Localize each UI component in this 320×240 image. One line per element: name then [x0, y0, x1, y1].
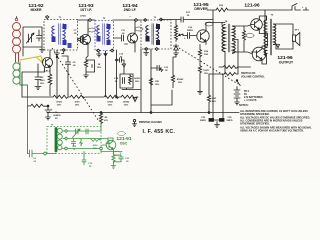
ground end of y97	[133, 98, 137, 102]
osc resistor 4700	[90, 139, 100, 142]
notes block	[239, 104, 312, 132]
ground tuning	[40, 47, 45, 52]
osc coil windings green	[47, 123, 132, 169]
osc arrow	[80, 139, 83, 146]
driver collector wire to T4	[206, 22, 222, 24]
osc transistor Q7 121-91	[106, 140, 116, 150]
svg-text:10%: 10%	[124, 105, 128, 107]
resistor 4700 x173	[171, 56, 176, 88]
green feed from bus	[100, 123, 102, 127]
coupling cap C11	[114, 35, 128, 44]
svg-text:I. F. 455 KC.: I. F. 455 KC.	[143, 129, 176, 135]
T1 windings blue	[52, 24, 72, 49]
green node diamonds	[65, 130, 68, 140]
osc coil core thick green	[55, 129, 58, 152]
svg-text:10%: 10%	[204, 73, 208, 75]
svg-text:470Ω: 470Ω	[56, 101, 62, 104]
svg-text:10%: 10%	[75, 105, 79, 107]
T2 diamonds and ground	[97, 49, 114, 52]
resistor x209 to bus	[207, 74, 210, 114]
svg-text:+ 4 VOLTS: + 4 VOLTS	[244, 99, 257, 102]
osc cap C20	[114, 155, 124, 162]
speaker SP1	[293, 33, 300, 46]
driver transistor Q4 121-95	[197, 30, 209, 42]
svg-text:100Ω: 100Ω	[203, 70, 209, 72]
svg-text:NOTES:: NOTES:	[239, 104, 249, 107]
AGC node diamond + cap C7	[78, 37, 87, 43]
T3 windings	[146, 24, 161, 46]
label 121-93 1ST I.F.	[78, 3, 94, 12]
svg-text:1ST I.F.: 1ST I.F.	[80, 8, 92, 12]
mixer emitter resistor R2	[48, 74, 52, 96]
label 121-96 OUTPUT	[277, 55, 294, 65]
label 121-92 MIXER	[28, 3, 44, 12]
osc cap C?	[86, 129, 88, 134]
osc row y131	[63, 127, 101, 132]
wire yellow antenna tap to mixer base	[20, 56, 43, 63]
output transistor Q5 top 121-96	[251, 19, 263, 31]
bottom bus y97 with series resistors	[22, 95, 138, 98]
label 121-95 DRIVER	[193, 2, 209, 11]
osc cap C18	[71, 139, 75, 147]
svg-text:SP 1: SP 1	[295, 30, 300, 32]
svg-text:MIXER: MIXER	[30, 8, 42, 12]
osc emitter resistor	[111, 152, 115, 169]
1st IF transistor Q2 121-93	[81, 35, 91, 45]
wire x116 with capacitor C12 branch	[116, 50, 118, 97]
svg-text:121-96: 121-96	[244, 3, 260, 9]
svg-text:2ND I.F.: 2ND I.F.	[124, 8, 137, 12]
IF transformer T3 dashed box	[141, 20, 171, 49]
osc trimmer cap C17	[73, 129, 81, 138]
svg-text:10%: 10%	[97, 67, 101, 69]
oscillator section green box T6	[47, 127, 101, 154]
svg-text:1K: 1K	[187, 15, 190, 17]
svg-text:10%: 10%	[108, 105, 112, 107]
volume control pot	[175, 25, 178, 41]
T3 diamonds and ground	[144, 18, 163, 50]
cap C8 on x68	[62, 56, 71, 97]
svg-text:50MFD: 50MFD	[53, 115, 61, 117]
svg-text:10%: 10%	[40, 83, 44, 85]
svg-text:10%: 10%	[212, 101, 216, 103]
T4 secondary wires	[233, 25, 252, 75]
svg-text:33Ω: 33Ω	[212, 98, 216, 100]
svg-text:10%: 10%	[155, 84, 159, 86]
IF frequency label	[143, 129, 176, 135]
svg-text:470Ω: 470Ω	[80, 15, 86, 18]
T1 ground + node diamonds	[55, 50, 60, 56]
variable capacitor C1A	[27, 33, 35, 43]
switch on-off	[292, 4, 309, 11]
detector diode D1	[174, 44, 179, 56]
svg-text:1000Ω: 1000Ω	[123, 102, 130, 104]
svg-text:4700: 4700	[93, 144, 99, 147]
output transistor Q6 bottom 121-96	[252, 47, 266, 61]
left low bus y106 with resistor	[28, 104, 49, 107]
T5 secondary chassis arrow	[277, 45, 280, 48]
capacitor C4 green	[28, 150, 44, 157]
resistor 15K in x151	[149, 78, 152, 85]
electrolytic C6	[47, 105, 49, 107]
svg-text:10%: 10%	[57, 105, 61, 107]
svg-text:4700Ω: 4700Ω	[177, 78, 184, 81]
cap C13	[151, 65, 163, 71]
wire x105 with arrow	[104, 51, 107, 97]
main bottom bus y112.5	[48, 112, 239, 114]
voltage ovals	[88, 22, 254, 156]
printed chassis legend	[133, 119, 135, 121]
node diamond green	[43, 152, 47, 155]
capacitor C2	[37, 30, 42, 41]
wire x151 from T3	[150, 49, 152, 113]
svg-text:OTHERWISE SPECIFIED.: OTHERWISE SPECIFIED.	[240, 122, 270, 125]
svg-text:10%: 10%	[178, 82, 182, 84]
svg-text:2200: 2200	[40, 80, 46, 82]
oscillator coil L2 green	[13, 62, 28, 154]
resistor row y67	[219, 66, 251, 69]
svg-text:USING AN A-C VOM OR VACUUM TUB: USING AN A-C VOM OR VACUUM TUBE VOLTMETE…	[240, 129, 304, 132]
wire top bus left	[78, 19, 142, 21]
mid vertical wire x57 from T1	[56, 57, 58, 98]
svg-text:OUTPUT: OUTPUT	[279, 61, 294, 65]
B+ feed to driver	[212, 10, 214, 119]
IF transformer T1 dashed box	[44, 20, 78, 51]
coupling electrolytic C16	[186, 33, 197, 39]
bias resistor output pair	[243, 26, 246, 52]
mixer transistor Q1 121-92	[43, 58, 53, 68]
osc row y138.5	[63, 139, 108, 144]
svg-text:1K: 1K	[98, 64, 101, 66]
resistor R6 bus to osc	[99, 113, 102, 125]
top bus right B+	[207, 9, 216, 11]
capacitor C5 with ground	[35, 64, 41, 89]
mixer emitter left branch	[22, 64, 45, 97]
svg-text:15K: 15K	[155, 81, 159, 83]
label 121-94 2ND I.F.	[122, 3, 138, 12]
driver emitter resistors chain	[198, 45, 203, 95]
yellow node blob	[41, 60, 44, 63]
resistor R5 on x86	[84, 52, 95, 78]
resistor row y74	[209, 73, 238, 76]
node dot antenna top	[15, 18, 18, 21]
line y105 connect	[151, 90, 172, 105]
wire T3 to pot	[161, 17, 213, 25]
svg-text:470Ω: 470Ω	[107, 101, 113, 104]
IF transformer T2 dashed box blue	[95, 21, 114, 51]
svg-text:560Ω: 560Ω	[134, 78, 140, 80]
svg-text:DRIVER: DRIVER	[194, 7, 208, 11]
switch link dashed	[179, 48, 238, 84]
antenna coil L1 red	[13, 23, 21, 63]
svg-text:4700: 4700	[75, 101, 81, 104]
output transformer T5	[271, 15, 274, 17]
T2 windings blue	[97, 24, 111, 46]
electrolytics C25 C26	[222, 74, 224, 119]
svg-text:33Ω: 33Ω	[204, 54, 208, 56]
svg-text:PRINTED CHASSIS: PRINTED CHASSIS	[139, 121, 162, 124]
svg-text:VOLUME CONTROL: VOLUME CONTROL	[241, 76, 265, 79]
label 121-96 top	[244, 3, 260, 9]
driver transformer T4	[225, 20, 228, 23]
svg-text:5MFD: 5MFD	[187, 30, 193, 32]
label 121-91 OSC	[116, 136, 132, 146]
gang tuning dashed diagonal	[52, 48, 98, 120]
battery BT1	[236, 80, 238, 82]
capacitor C14 / resistor R8 parallel pair with wire x141	[120, 49, 141, 113]
tuning network box	[23, 27, 42, 56]
svg-text:5MFD: 5MFD	[200, 120, 206, 122]
emitter join vertical	[267, 34, 269, 47]
svg-text:5MFD: 5MFD	[227, 120, 233, 122]
svg-text:OSC: OSC	[120, 142, 128, 146]
2nd IF transistor Q3 121-94	[128, 33, 138, 43]
osc bottom row with capacitor C19	[47, 149, 122, 165]
svg-text:10%: 10%	[93, 148, 97, 150]
speaker SP1 wires	[274, 24, 294, 49]
svg-text:10%: 10%	[135, 81, 139, 83]
